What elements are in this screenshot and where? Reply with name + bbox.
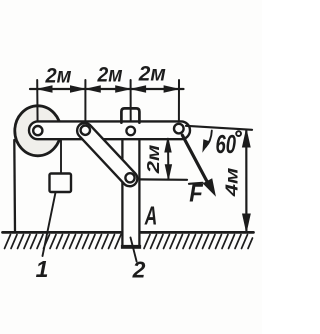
force F vector (182, 135, 208, 184)
vertical post (member 2) (122, 137, 139, 247)
svg-text:2м: 2м (138, 63, 166, 86)
rope hanging from pulley (60, 137, 62, 174)
svg-text:2м: 2м (97, 64, 123, 87)
2m vertical top arrow (165, 138, 171, 152)
2m vertical dimension line (167, 139, 169, 179)
2m vertical bottom arrow (165, 165, 171, 179)
extension line at x=179 (pin C) (178, 80, 180, 123)
svg-text:1: 1 (36, 256, 49, 282)
extension line at x=85 (pin B) (84, 80, 86, 125)
svg-text:2м: 2м (45, 65, 72, 88)
force F arrowhead (204, 179, 215, 194)
leader line to label 1 (43, 193, 56, 257)
pin B (bar-strut joint) (81, 126, 90, 135)
extension line at x=130.5 (post cap) (130, 80, 132, 126)
dim arrow right of segment 1 (71, 86, 85, 92)
horizontal reference line for angle (186, 126, 252, 130)
dim arrow left of segment 1 (38, 86, 52, 92)
pulley wheel (15, 106, 61, 156)
svg-text:2м: 2м (143, 145, 163, 175)
post bottom cap (121, 245, 141, 249)
axle pin on pulley (33, 126, 42, 135)
svg-text:60: 60 (216, 129, 237, 159)
pulley stand leg (13, 140, 16, 231)
elbow pin (strut-post joint) (125, 173, 134, 182)
leader line to label 2 (131, 238, 137, 262)
dim arrow left of segment 2 (87, 86, 101, 92)
svg-text:4м: 4м (222, 168, 242, 198)
dim arrow right of segment 2 (116, 86, 130, 92)
extension line at x=37 (pulley axle) (36, 80, 38, 125)
ground line (3, 231, 122, 234)
horizontal bar (beam) (29, 121, 190, 139)
4m top arrow (243, 130, 251, 147)
svg-text:A: A (144, 201, 157, 231)
reference line at elbow level (140, 178, 188, 181)
angle arc with arrow (206, 131, 212, 147)
post cap bracket (121, 108, 139, 122)
diagonal strut (77, 123, 137, 186)
dim arrow left of segment 3 (132, 86, 146, 92)
pin on post top (126, 127, 135, 136)
dim arrow right of segment 3 (164, 86, 178, 92)
ground hatching (5, 235, 253, 249)
svg-text:2: 2 (132, 257, 146, 283)
top dimension line (30, 88, 184, 90)
pin C (bar right end) (174, 124, 184, 134)
4m bottom arrow (243, 214, 251, 231)
weight block (load 1) (50, 174, 72, 193)
4m dimension line (245, 131, 247, 231)
